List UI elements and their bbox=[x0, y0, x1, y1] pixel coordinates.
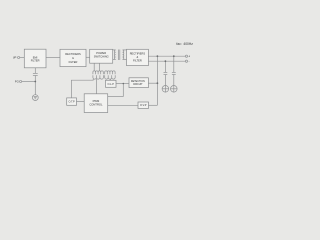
svg-text:CIRCUIT: CIRCUIT bbox=[133, 83, 143, 86]
svg-text:FILTER: FILTER bbox=[69, 60, 78, 64]
svg-text:&: & bbox=[72, 56, 74, 60]
svg-text:SWITCHING: SWITCHING bbox=[94, 55, 109, 59]
svg-text:RECTIFIERS: RECTIFIERS bbox=[65, 52, 81, 56]
svg-text:O.T.P: O.T.P bbox=[68, 101, 75, 104]
svg-text:I/P: I/P bbox=[13, 56, 17, 60]
svg-text:400Hz: 400Hz bbox=[183, 42, 193, 46]
svg-text:FG: FG bbox=[15, 80, 19, 84]
svg-text:RECTIFIERS: RECTIFIERS bbox=[130, 51, 146, 55]
svg-text:FILTER: FILTER bbox=[133, 59, 142, 63]
svg-text:-: - bbox=[189, 59, 190, 63]
svg-text:FILTER: FILTER bbox=[31, 59, 40, 63]
svg-text:PWM: PWM bbox=[93, 99, 100, 103]
svg-text:O.L.P: O.L.P bbox=[107, 83, 114, 86]
svg-text:O.V.P: O.V.P bbox=[140, 104, 147, 107]
svg-text:CONTROL: CONTROL bbox=[89, 103, 103, 107]
svg-text:&: & bbox=[137, 55, 139, 59]
svg-text:fac:: fac: bbox=[176, 42, 181, 46]
svg-text:POWER: POWER bbox=[96, 51, 106, 55]
svg-text:+: + bbox=[188, 54, 190, 58]
